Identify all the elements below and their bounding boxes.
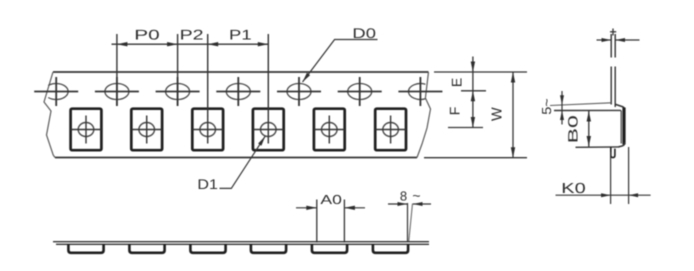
sprocket hole S3 (circle with crosshair) (156, 77, 200, 106)
bottom view: tape lower line (56, 243, 429, 245)
component pocket K4 (rectangle with circle crosshair) (253, 109, 284, 151)
arrowhead 5~ top (down) (560, 95, 564, 105)
component pocket K1 (rectangle with circle crosshair) (71, 109, 102, 151)
extension line at pocket K4 for P1 (267, 34, 269, 116)
bottom view pocket protrusion B5 (312, 244, 347, 253)
bottom view: tape upper line (53, 241, 429, 243)
leader line for D1 pointing to pocket K4 circle (220, 136, 266, 188)
extension line A0 left (316, 200, 318, 243)
svg-text:5~: 5~ (539, 98, 554, 115)
extension line at sprocket S2 for P0 (116, 34, 118, 106)
dimension line 5~ vertical (561, 91, 563, 125)
svg-text:F: F (447, 107, 463, 116)
dimension line 8~ right segment (413, 203, 431, 205)
bottom view pocket protrusion B3 (190, 244, 225, 253)
svg-text:E: E (449, 78, 465, 87)
extension line top tape edge (for E and W) (434, 71, 527, 73)
pocket inner wall line (side view) (620, 111, 622, 144)
arrowhead B0 top (up) (587, 111, 591, 122)
dimension line E/F vertical (472, 57, 474, 128)
sprocket hole S6 (circle with crosshair) (338, 77, 382, 106)
extension line bottom tape edge (for W) (424, 157, 527, 159)
svg-text:8: 8 (400, 189, 407, 204)
top view: carrier tape top edge (53, 71, 429, 73)
extension line K0 left (610, 152, 612, 204)
dimension line K0 (556, 194, 651, 196)
svg-text:D1: D1 (197, 176, 218, 192)
sprocket hole S1 (circle with crosshair) (34, 77, 78, 106)
extension line K0 right (628, 147, 630, 204)
component pocket K3 (rectangle with circle crosshair) (192, 109, 223, 151)
extension line at pocket center level (F bottom) (448, 127, 483, 129)
dimension line W vertical (512, 72, 514, 158)
pocket bottom line (side view) (576, 146, 620, 148)
arrowhead E bottom / F top (up) (471, 91, 475, 102)
svg-text:P0: P0 (134, 27, 160, 43)
extension line at sprocket S3 for P0/P2 (177, 34, 179, 106)
extension line at pocket K3 for P2/P1 (207, 34, 209, 116)
dimension line t right segment (616, 39, 640, 41)
bottom view pocket protrusion B6 (373, 244, 408, 253)
svg-text:P2: P2 (180, 27, 204, 43)
dimension line A0 left segment (296, 207, 317, 209)
arrowhead P0 left (117, 42, 128, 46)
dimension line t left segment (597, 39, 612, 41)
thickness t tick symbol (610, 29, 616, 36)
bottom view pocket protrusion B4 (251, 244, 286, 253)
svg-text:D0: D0 (352, 25, 376, 41)
pocket bottom corner diagonal (side view) (619, 143, 625, 147)
arrowhead E top (down) (471, 62, 475, 73)
bottom view pocket protrusion B2 (129, 244, 164, 253)
slanted tape surface line (5~ draft) (550, 103, 611, 106)
component pocket K6 (rectangle with circle crosshair) (375, 109, 406, 151)
vertical reference line for draft angle 8~ (407, 203, 409, 242)
extension tick at sprocket center level (E/F boundary) (461, 90, 486, 92)
extension line A0 right (343, 200, 345, 243)
pocket top flange line (side view) (554, 109, 621, 111)
bottom view pocket protrusion B1 (68, 244, 103, 253)
arrowhead K0 left (right-pointing) (601, 193, 611, 197)
torn left edge of tape (44, 72, 55, 158)
svg-text:B0: B0 (565, 115, 580, 143)
dimension line B0 vertical (588, 111, 590, 147)
pocket right wall outer corner diagonal (side view) (615, 104, 625, 110)
svg-text:K0: K0 (561, 181, 586, 197)
arrowhead B0 bottom (down) (587, 136, 591, 147)
torn right edge of tape (417, 72, 431, 158)
leader line for D0 pointing to sprocket hole S5 (303, 40, 378, 83)
top view: carrier tape bottom edge (55, 157, 417, 159)
dimension line A0 right segment (344, 207, 365, 209)
arrowhead W bottom (down) (511, 147, 515, 158)
pocket right wall (side view, thick) (622, 108, 625, 145)
arrowhead P0 right / P2 left (167, 42, 178, 46)
dimension line for P0 P2 P1 (112, 43, 269, 45)
arrowhead F bottom (down) (471, 117, 475, 128)
tape foot stub below pocket (side view) (611, 147, 615, 157)
svg-text:W: W (490, 107, 506, 121)
arrowhead 5~ bottom (up) (560, 111, 564, 121)
slanted pocket wall line for 8~ (409, 204, 413, 242)
sprocket hole S7 (circle with crosshair) (398, 77, 442, 106)
side view tape cross-section upper segment (double line) (611, 34, 615, 58)
side view tape cross-section lower segment (double line) (611, 67, 615, 108)
arrowhead W top (up) (511, 72, 515, 83)
svg-text:~: ~ (412, 188, 420, 204)
svg-text:P1: P1 (229, 27, 252, 43)
sprocket hole S4 (circle with crosshair) (216, 77, 260, 106)
arrowhead P1 right (258, 42, 269, 46)
sprocket hole S5 (circle with crosshair) (277, 77, 321, 106)
arrowhead P1 left / P2 right (208, 42, 219, 46)
component pocket K2 (rectangle with circle crosshair) (131, 109, 162, 151)
arrowhead K0 right (left-pointing) (629, 193, 639, 197)
sprocket hole S2 (circle with crosshair) (95, 77, 139, 106)
component pocket K5 (rectangle with circle crosshair) (314, 109, 345, 151)
svg-text:A0: A0 (320, 192, 342, 207)
dimension line 8~ left segment (388, 203, 407, 205)
